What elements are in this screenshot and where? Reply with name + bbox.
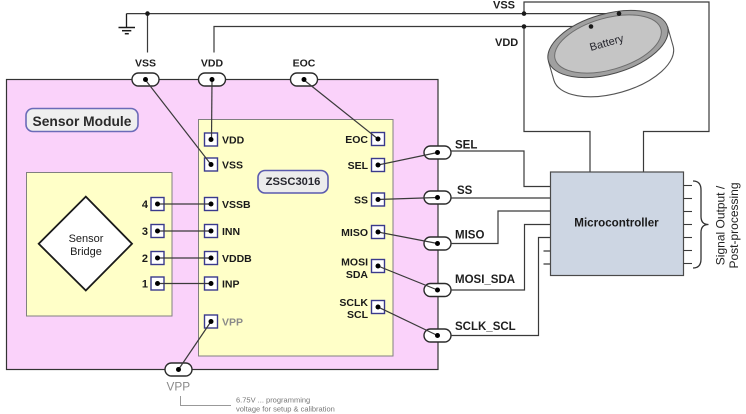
svg-text:4: 4	[142, 199, 149, 211]
microcontroller left stubs	[544, 251, 551, 264]
svg-text:VSS: VSS	[493, 0, 515, 12]
bridge box	[27, 173, 173, 317]
svg-text:INP: INP	[222, 279, 240, 291]
wire VPP pin to VPP oval	[179, 322, 212, 370]
svg-text:EOC: EOC	[293, 58, 316, 70]
wire VDD branch to microcontroller	[524, 27, 590, 173]
svg-text:SEL: SEL	[348, 160, 369, 172]
svg-text:voltage for setup & calibratio: voltage for setup & calibration	[236, 405, 335, 414]
pad MOSI	[424, 284, 451, 297]
svg-text:MISO: MISO	[341, 227, 368, 239]
svg-text:SS: SS	[354, 195, 368, 207]
svg-text:Sensor Module: Sensor Module	[33, 114, 132, 129]
svg-text:VDDB: VDDB	[222, 253, 252, 265]
svg-text:Sensor: Sensor	[69, 233, 104, 245]
pad SS	[424, 191, 451, 204]
pad VSS	[132, 73, 159, 86]
wire SS to microcontroller	[451, 197, 551, 199]
svg-text:1: 1	[142, 279, 148, 291]
ground	[119, 14, 136, 34]
svg-text:VDD: VDD	[495, 37, 518, 49]
wire bridge pin 2 to VDDB	[158, 257, 212, 259]
wire EOC oval to EOC pin	[304, 80, 378, 139]
wire VSS branch to microcontroller	[524, 2, 709, 172]
node dots: pins	[155, 137, 381, 325]
ZSSC3016 label	[258, 171, 328, 194]
svg-text:MOSI: MOSI	[341, 257, 368, 269]
wire bridge pin 1 to INP	[158, 283, 212, 285]
chip right pin squares	[372, 133, 385, 314]
svg-text:VDD: VDD	[201, 58, 224, 70]
pad VDD	[199, 73, 226, 86]
battery B1	[540, 0, 681, 109]
wire VSS drop to oval	[147, 14, 149, 53]
svg-text:6.75V ... programming: 6.75V ... programming	[236, 396, 310, 405]
svg-text:Microcontroller: Microcontroller	[574, 217, 659, 230]
pad SEL	[424, 146, 451, 159]
wire MISO to microcontroller	[451, 211, 551, 244]
wire bridge pin 3 to INN	[158, 230, 212, 232]
wire SS pin to pad	[378, 198, 438, 200]
pad EOC	[291, 73, 318, 86]
svg-text:Signal Output /: Signal Output /	[714, 185, 728, 265]
node dots: pads	[143, 77, 440, 372]
wire VSS top rail	[127, 13, 620, 15]
wire SEL pin to pad	[378, 153, 438, 166]
svg-text:VPP: VPP	[167, 380, 191, 394]
sensor module box	[7, 80, 439, 370]
wire SEL to microcontroller	[451, 151, 551, 187]
sensor bridge diamond	[39, 197, 132, 291]
node dots: junctions	[145, 11, 621, 29]
brace signal output	[693, 181, 709, 268]
svg-text:VSSB: VSSB	[222, 199, 251, 211]
svg-text:VSS: VSS	[135, 58, 156, 70]
VPP programming note bracket	[181, 396, 232, 406]
Sensor Module label	[26, 109, 138, 132]
svg-text:EOC: EOC	[345, 134, 368, 146]
svg-text:3: 3	[142, 226, 148, 238]
svg-text:VDD: VDD	[222, 135, 245, 147]
ZSSC3016 chip box	[199, 120, 394, 357]
svg-text:SS: SS	[457, 185, 473, 197]
svg-text:Bridge: Bridge	[70, 246, 102, 258]
wire MOSI to microcontroller	[451, 225, 551, 291]
svg-text:Post-processing: Post-processing	[727, 182, 741, 268]
wire VSS oval to VSS pin	[146, 80, 212, 165]
wire MISO pin to pad	[378, 232, 438, 244]
wire SCLK pin to pad	[378, 307, 438, 336]
svg-text:SDA: SDA	[346, 269, 369, 281]
svg-text:VSS: VSS	[222, 160, 243, 172]
svg-text:INN: INN	[222, 226, 240, 238]
wire SCLK to microcontroller	[451, 238, 551, 336]
svg-text:SEL: SEL	[455, 140, 477, 152]
wire VDD oval to VDD pin	[211, 80, 214, 140]
svg-text:SCLK_SCL: SCLK_SCL	[455, 321, 516, 333]
chip left pin squares	[205, 133, 218, 328]
svg-text:SCLK: SCLK	[339, 297, 368, 309]
wire VDD rail	[214, 27, 591, 53]
svg-text:VPP: VPP	[222, 317, 243, 329]
bridge pin squares	[151, 198, 164, 291]
pad SCLK	[424, 329, 451, 342]
svg-text:2: 2	[142, 253, 148, 265]
svg-text:MOSI_SDA: MOSI_SDA	[455, 274, 515, 286]
microcontroller right pin stubs	[684, 186, 693, 264]
pad VPP	[165, 363, 192, 376]
wire MOSI pin to pad	[378, 266, 438, 290]
svg-text:MISO: MISO	[455, 230, 484, 242]
svg-text:SCL: SCL	[347, 309, 369, 321]
svg-text:ZSSC3016: ZSSC3016	[266, 176, 321, 188]
wire bridge pin 4 to VSSB	[158, 203, 212, 205]
pad MISO	[424, 237, 451, 250]
microcontroller U1	[551, 172, 684, 276]
